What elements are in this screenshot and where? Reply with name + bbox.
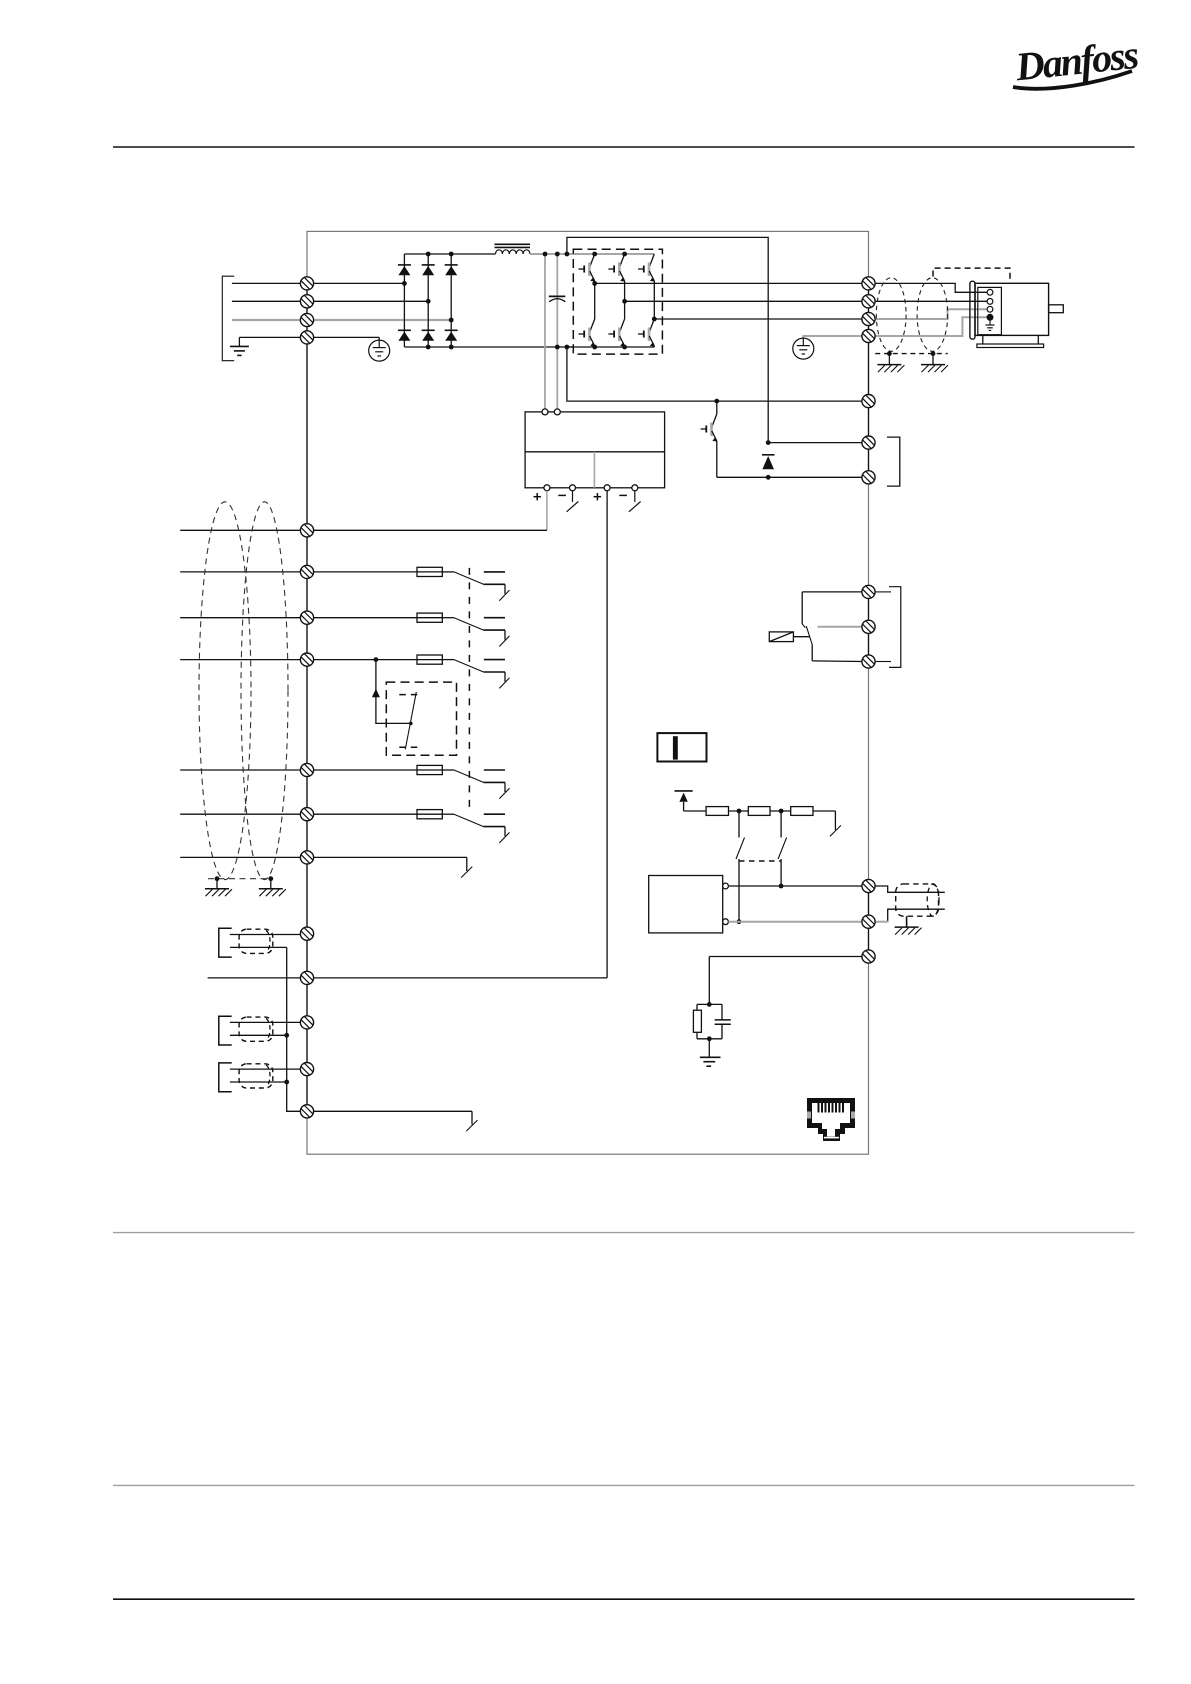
svg-text:Danfoss: Danfoss bbox=[1012, 32, 1140, 90]
